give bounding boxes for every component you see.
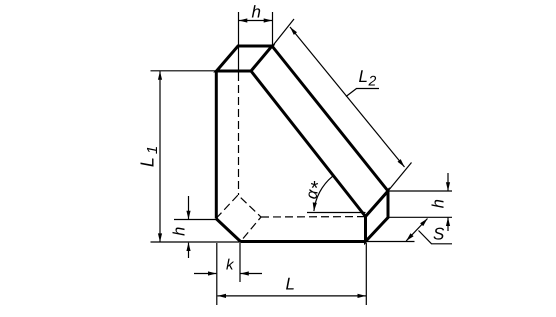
dimension h top: dimension line: [239, 20, 272, 22]
arrowhead h top left: [239, 18, 248, 22]
bottom-left chamfer edge: [216, 219, 241, 242]
bottom edge: [241, 240, 367, 243]
dimension L2: extension line upper: [273, 19, 295, 46]
dimension k: arrow stems: [194, 273, 216, 275]
hidden edge dashed horizontal to right vertex: [261, 216, 366, 218]
dimension h left: extension line: [174, 219, 216, 221]
top chamfer face outline: [217, 46, 273, 71]
arrowhead L2 upper: [290, 27, 297, 35]
arrowhead L1 bottom: [158, 233, 162, 242]
arrowhead h left bottom: [186, 243, 190, 252]
bottom edge extension right: [366, 241, 415, 243]
hidden edge dashed vertical axis: [238, 73, 240, 195]
inner hypotenuse edge: [251, 71, 366, 217]
dimension L1: extension line top: [151, 70, 217, 72]
arrowhead h right top: [446, 182, 450, 191]
arrowhead h left top: [186, 211, 190, 220]
svg-text:*: *: [310, 178, 319, 200]
dimension k: extension line right: [239, 243, 241, 282]
dimension L2: leader and shelf: [346, 89, 379, 97]
arrowhead h right bottom: [446, 218, 450, 227]
outer hypotenuse edge: [272, 46, 388, 191]
dimension h right: arrow stems: [447, 173, 449, 191]
dimension k: extension line left: [216, 243, 218, 305]
arrowhead L right: [358, 294, 367, 298]
arrowhead k left: [208, 271, 217, 275]
angle alpha arc: [314, 176, 333, 211]
arrowhead L left: [218, 294, 227, 298]
svg-text:h: h: [252, 2, 261, 21]
arrowhead h top right: [264, 18, 273, 22]
svg-text:L: L: [286, 274, 295, 293]
arrowhead L2 lower: [398, 159, 405, 167]
arrowhead S upper: [420, 219, 427, 227]
arrowhead angle arc: [313, 202, 317, 211]
arrowhead S lower: [406, 233, 413, 241]
dimension h left: arrow stems: [188, 196, 190, 219]
dimension L: dimension line: [218, 295, 367, 297]
dimension h right: extension line top: [388, 190, 452, 192]
right end face outline: [366, 191, 389, 242]
angle base thin line: [307, 212, 366, 214]
dimension h top: extension line right: [272, 12, 274, 46]
svg-text:S: S: [433, 224, 445, 243]
svg-text:h: h: [170, 227, 188, 236]
dimension h right: extension line bottom: [388, 216, 452, 218]
thickness S: leader and shelf: [419, 231, 453, 244]
dimension L: extension line right: [365, 243, 367, 305]
hidden square cross-section (diamond) dashed sides: [216, 195, 261, 242]
arrowhead L1 top: [158, 71, 162, 80]
thickness S: double arrow line: [406, 219, 427, 241]
svg-text:h: h: [429, 199, 447, 208]
dimension L2: extension line lower: [388, 163, 412, 192]
dimension L1: extension line bottom (long): [151, 241, 242, 243]
dimension L1: dimension line: [159, 71, 161, 242]
dimension L2: dimension line: [290, 27, 405, 167]
dimension h top: extension line left: [238, 12, 240, 73]
arrowhead k right: [240, 271, 249, 275]
left edge: [215, 71, 218, 219]
